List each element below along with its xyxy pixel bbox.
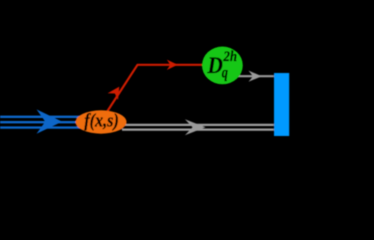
wire: remnant double line top (122, 124, 274, 126)
distribution function blob f(x,s) (76, 110, 127, 133)
wire: fragmenting quark gray line (230, 75, 274, 77)
gray arrowhead on quark line (249, 71, 262, 82)
red arrowhead on diagonal segment (108, 87, 120, 100)
red arrowhead on horizontal segment (167, 60, 178, 70)
svg-text:f(x,s): f(x,s) (84, 111, 119, 132)
svg-text:2h: 2h (223, 49, 238, 65)
wire: incoming hadron triple line top (0, 116, 101, 118)
detector bar (274, 73, 289, 136)
wire: incoming hadron triple line middle (0, 121, 101, 123)
wire: red quark line from f(x,s) to D (108, 65, 202, 111)
svg-text:q: q (222, 65, 228, 82)
blue beam arrowhead (37, 109, 63, 133)
wire: remnant double line bottom (122, 128, 274, 130)
svg-text:D: D (207, 53, 224, 78)
wire: incoming hadron triple line bottom (0, 126, 101, 128)
gray arrowhead on remnant double line (185, 119, 206, 135)
fragmentation function blob D (202, 47, 243, 85)
